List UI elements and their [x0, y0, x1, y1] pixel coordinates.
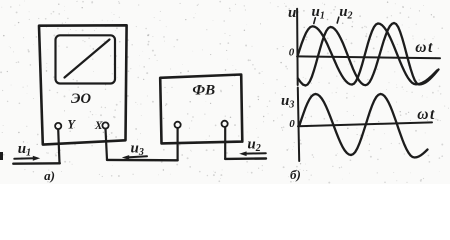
svg-text:ωt: ωt [417, 106, 436, 123]
svg-text:u: u [288, 5, 296, 21]
svg-text:0: 0 [289, 118, 295, 130]
svg-text:0: 0 [289, 47, 295, 59]
svg-text:а): а) [44, 168, 55, 183]
svg-text:ФВ: ФВ [192, 83, 215, 99]
svg-text:ЭО: ЭО [71, 91, 91, 107]
svg-text:X: X [94, 120, 103, 132]
svg-text:б): б) [290, 167, 301, 182]
svg-text:Y: Y [67, 118, 76, 132]
svg-text:ωt: ωt [415, 39, 434, 56]
